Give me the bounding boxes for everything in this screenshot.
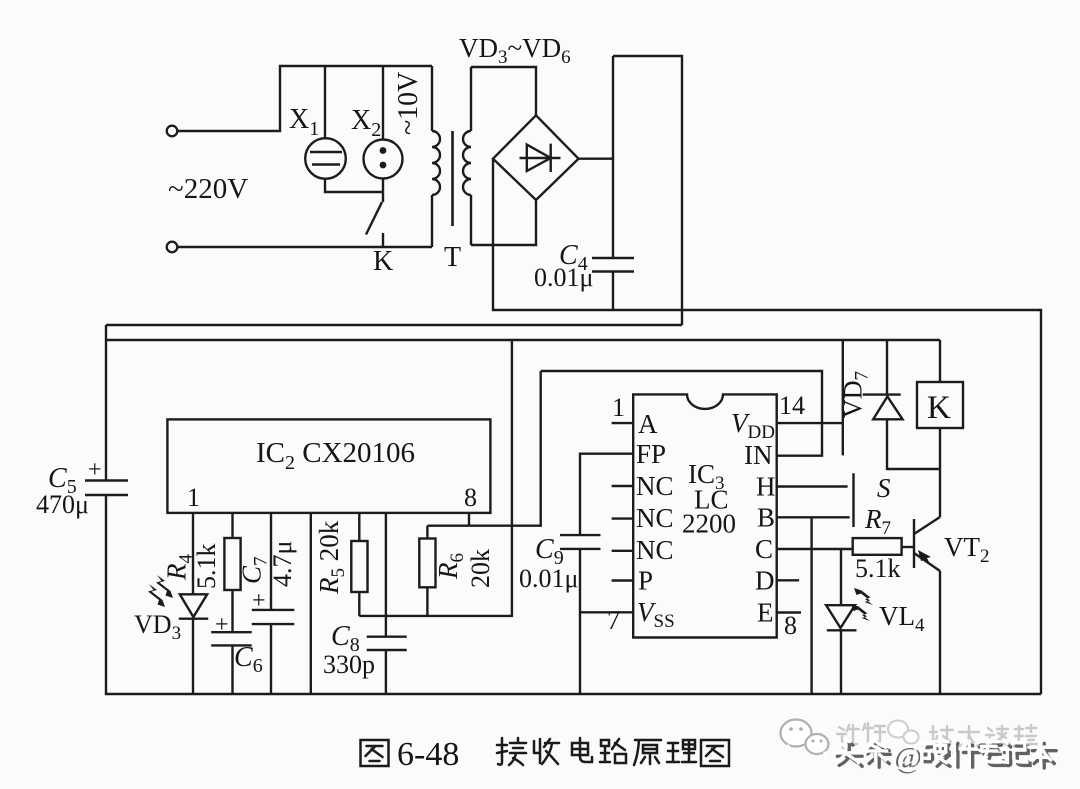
svg-text:20k: 20k — [466, 549, 495, 588]
svg-text:NC: NC — [636, 535, 674, 565]
svg-text:S: S — [877, 473, 891, 503]
svg-text:E: E — [757, 598, 774, 628]
svg-text:1: 1 — [612, 393, 625, 422]
svg-text:NC: NC — [636, 471, 674, 501]
svg-text:VSS: VSS — [637, 597, 675, 632]
svg-text:C: C — [755, 534, 773, 564]
svg-text:330p: 330p — [323, 650, 375, 679]
svg-text:+: + — [252, 588, 266, 614]
svg-text:IC2 CX20106: IC2 CX20106 — [256, 437, 415, 474]
svg-text:D: D — [755, 566, 775, 596]
svg-text:470μ: 470μ — [36, 490, 89, 519]
svg-text:2200: 2200 — [682, 509, 736, 539]
svg-text:C6: C6 — [234, 642, 263, 677]
svg-text:VL4: VL4 — [879, 601, 925, 636]
svg-text:NC: NC — [636, 503, 674, 533]
svg-text:+: + — [88, 457, 102, 483]
svg-text:0.01μ: 0.01μ — [534, 263, 593, 292]
svg-text:~10V: ~10V — [393, 72, 424, 135]
svg-text:5.1k: 5.1k — [855, 554, 901, 583]
svg-text:1: 1 — [187, 483, 200, 512]
svg-text:K: K — [927, 390, 951, 426]
svg-text:R6: R6 — [433, 553, 468, 580]
svg-text:+: + — [215, 612, 229, 638]
svg-text:T: T — [444, 242, 461, 273]
svg-text:IN: IN — [744, 440, 773, 470]
svg-text:5.1k: 5.1k — [192, 544, 221, 590]
svg-text:7: 7 — [607, 606, 620, 635]
svg-text:VDD: VDD — [731, 408, 775, 443]
svg-text:X1: X1 — [289, 104, 319, 140]
svg-text:VT2: VT2 — [944, 532, 990, 567]
svg-text:A: A — [638, 409, 658, 439]
svg-text:VD3~VD6: VD3~VD6 — [459, 33, 571, 68]
svg-text:FP: FP — [636, 439, 666, 469]
svg-text:VD3: VD3 — [134, 610, 181, 644]
svg-text:~220V: ~220V — [168, 173, 248, 205]
svg-text:X2: X2 — [351, 105, 381, 141]
svg-text:8: 8 — [784, 611, 797, 640]
svg-text:B: B — [757, 503, 775, 533]
svg-text:H: H — [756, 472, 776, 502]
svg-text:P: P — [638, 566, 653, 596]
svg-text:R7: R7 — [864, 504, 891, 539]
svg-text:4.7μ: 4.7μ — [268, 541, 297, 587]
svg-text:8: 8 — [464, 483, 477, 512]
svg-text:14: 14 — [779, 391, 805, 420]
svg-text:K: K — [373, 246, 393, 277]
svg-text:6-48: 6-48 — [397, 736, 459, 773]
svg-text:R5 20k: R5 20k — [314, 520, 349, 595]
svg-text:0.01μ: 0.01μ — [519, 564, 578, 593]
